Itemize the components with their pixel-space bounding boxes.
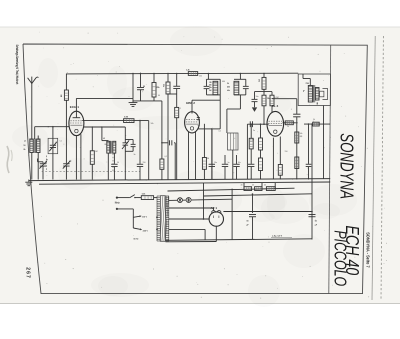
tuning capacitor C7 <box>122 127 129 180</box>
resistor R6 <box>90 151 94 165</box>
svg-text:50: 50 <box>315 221 317 223</box>
dial lamp LP1 <box>178 198 183 203</box>
wire R4 to bus <box>161 169 163 179</box>
wire osc grid link <box>101 126 108 140</box>
wire osc cap link <box>161 142 175 144</box>
node grid1 <box>48 126 54 128</box>
dashed tuning gang link <box>42 171 140 173</box>
svg-text:0,1: 0,1 <box>219 131 222 133</box>
wire V2 grid link <box>192 99 220 101</box>
capacitor C7b parallel <box>125 140 135 152</box>
capacitor C13 <box>209 128 215 179</box>
svg-text:50: 50 <box>247 221 249 223</box>
page edge dotted line <box>381 36 383 300</box>
speaker box <box>298 74 330 106</box>
svg-text:0,5M: 0,5M <box>250 140 254 142</box>
capacitor C12 <box>243 79 249 95</box>
wire B+ line <box>223 211 312 213</box>
ground arrow <box>252 107 257 112</box>
tuning capacitor C2 <box>49 127 57 180</box>
wire IFT1 drop <box>208 73 210 80</box>
svg-text:15k: 15k <box>267 98 270 100</box>
wire tone drop <box>308 123 310 164</box>
wire plate V3 <box>283 122 296 124</box>
IFT2 coil L6 <box>234 81 239 94</box>
tube V1 ECH40 <box>69 111 84 135</box>
svg-text:30k: 30k <box>162 84 164 87</box>
svg-text:50 Hz: 50 Hz <box>134 238 139 240</box>
label tube V3 <box>272 104 279 108</box>
svg-text:SONDYNA - Seite 7: SONDYNA - Seite 7 <box>366 232 371 268</box>
capacitor C17 coupling <box>250 121 265 127</box>
svg-text:50: 50 <box>117 162 119 164</box>
capacitor C10 <box>167 73 180 95</box>
wire screen drop <box>167 73 169 82</box>
svg-text:kHz: kHz <box>209 87 212 89</box>
wire L4 bottom <box>113 153 115 164</box>
svg-text:10n: 10n <box>214 162 217 164</box>
resistor R10 <box>262 95 270 106</box>
wire osc grid top <box>76 97 133 99</box>
resistor R4 <box>160 159 164 169</box>
resistor R8 <box>175 94 179 180</box>
left margin imprint text <box>15 45 19 85</box>
separator line <box>329 45 331 294</box>
resistor R13 cathode <box>278 165 282 180</box>
resistor R20 <box>266 187 275 191</box>
scan speckle <box>27 32 387 299</box>
wire drop 232 <box>231 189 233 240</box>
svg-text:10n: 10n <box>256 96 259 98</box>
label tube V4 <box>211 206 218 210</box>
wire L2 bottom to bus <box>37 153 39 180</box>
wire rectifier cathode <box>215 226 217 241</box>
IFT2 top wire <box>234 78 246 80</box>
svg-text:L.Sp. 5,9 V: L.Sp. 5,9 V <box>272 236 283 238</box>
tube V2 pins <box>189 131 196 179</box>
border frame <box>23 44 367 294</box>
svg-text:40: 40 <box>241 185 243 187</box>
resistor R22b <box>259 150 263 180</box>
heater row risers <box>244 183 275 189</box>
capacitor C16 <box>252 92 258 108</box>
wire osc coil lead <box>107 140 109 143</box>
resistor R7 <box>162 82 170 94</box>
svg-text:Schaltungs-Sammlung H. Thali,: Schaltungs-Sammlung H. Thali, Hitzkirch <box>15 45 19 85</box>
wire B+ rail <box>66 72 298 75</box>
dashed gang vertical left <box>46 156 48 172</box>
wire drop from rail <box>132 73 134 99</box>
svg-text:8k: 8k <box>24 149 26 151</box>
svg-text:40: 40 <box>264 185 266 187</box>
wire grid cap drop <box>65 74 67 91</box>
svg-text:C2: C2 <box>128 140 130 142</box>
coil core L3 <box>103 138 112 153</box>
svg-text:220 V: 220 V <box>143 230 149 232</box>
ground chassis at bus left end <box>25 180 32 186</box>
svg-text:5k: 5k <box>313 119 315 121</box>
resistor R17 <box>313 122 320 126</box>
label T2 <box>302 83 309 92</box>
power transformer T1 <box>157 196 169 242</box>
wire T2 primary leads <box>303 74 310 86</box>
resistor R2 grid <box>60 90 69 100</box>
wire heater return riser <box>203 183 205 220</box>
svg-text:0,1: 0,1 <box>165 156 168 158</box>
svg-text:0,3: 0,3 <box>300 136 302 138</box>
svg-text:5n: 5n <box>228 162 230 164</box>
svg-text:0,1: 0,1 <box>198 125 201 127</box>
coil core L1 <box>34 139 35 153</box>
wire V2 anode bend <box>198 128 212 130</box>
edition text SONDYNA Seite 7 <box>366 232 371 268</box>
svg-text:7000: 7000 <box>306 83 310 85</box>
wire selector <box>132 209 134 228</box>
wire transformer bottom <box>166 241 217 243</box>
svg-text:60: 60 <box>158 95 160 97</box>
dashed gang vertical <box>112 154 114 172</box>
switch S1 <box>130 195 136 199</box>
resistor R22a <box>259 123 263 150</box>
grid cap V2 <box>191 100 193 113</box>
grid top cap V1 <box>73 98 81 117</box>
wire grid drop left <box>246 124 248 179</box>
svg-text:5n: 5n <box>253 130 255 132</box>
resistor R19 <box>255 187 262 191</box>
wire T2 sec lead <box>316 102 318 104</box>
capacitor C14 <box>222 155 228 180</box>
svg-text:50k: 50k <box>257 79 259 82</box>
svg-text:460: 460 <box>222 81 225 83</box>
tube V3 EL41 <box>267 111 284 136</box>
margin smudge <box>7 146 12 173</box>
svg-text:ECH 1: ECH 1 <box>70 105 79 109</box>
svg-text:25k: 25k <box>199 76 202 78</box>
title ECH 40 <box>342 225 362 275</box>
page fold line <box>372 36 375 300</box>
svg-text:EBF 2: EBF 2 <box>186 101 195 105</box>
wire grid line right <box>84 126 126 128</box>
label mains freq <box>134 238 139 240</box>
wire R6 to bus <box>91 164 93 179</box>
svg-text:L3: L3 <box>103 138 105 140</box>
svg-text:kHz: kHz <box>227 90 230 92</box>
svg-text:4p: 4p <box>70 161 72 163</box>
svg-text:Ra: Ra <box>302 90 304 92</box>
wire avc branch <box>255 91 273 93</box>
dial lamp LP2 <box>186 198 191 203</box>
svg-text:EL 3: EL 3 <box>272 104 279 108</box>
resistor R14 <box>285 121 293 125</box>
label tube V1 <box>70 105 79 109</box>
output transformer T2 <box>308 85 319 102</box>
svg-text:40: 40 <box>252 185 254 187</box>
voltage tap 110V <box>133 215 147 218</box>
wire divider drop <box>263 73 265 78</box>
svg-text:PICCOLO: PICCOLO <box>330 230 350 286</box>
wire T1 filament <box>169 218 209 220</box>
svg-text:3n: 3n <box>134 154 136 156</box>
wire V1 plate drop <box>148 121 150 180</box>
IFT1 coil L5 <box>209 81 218 94</box>
svg-text:150: 150 <box>285 151 288 153</box>
antenna coil L2 <box>37 139 40 153</box>
wire IFT1 to V3 grid loop <box>212 79 220 179</box>
resistor R15 <box>295 132 302 143</box>
wire lamp line <box>169 199 232 200</box>
svg-text:0,1: 0,1 <box>179 108 182 110</box>
capacitor C11 <box>204 79 210 95</box>
mains terminal 2 <box>116 208 134 210</box>
svg-text:50: 50 <box>24 145 26 147</box>
wire T1 HT return <box>169 229 205 239</box>
antenna <box>28 77 39 139</box>
capacitor C4 <box>137 73 145 101</box>
detector block <box>228 133 239 150</box>
svg-text:5,9k: 5,9k <box>142 194 146 196</box>
tube V1 pin wires <box>76 134 81 179</box>
wire cluster bottom link <box>133 100 162 102</box>
resistor R1 on B+ rail <box>186 70 198 76</box>
wire heater line <box>168 188 295 191</box>
capacitor C18 tone <box>293 114 300 117</box>
loudspeaker <box>320 89 328 100</box>
svg-text:50: 50 <box>143 86 145 88</box>
capacitor C6 <box>111 164 117 179</box>
capacitor C9 <box>170 140 176 179</box>
svg-text:110 V: 110 V <box>142 217 148 219</box>
svg-text:150: 150 <box>143 162 146 164</box>
resistor R21 mains <box>141 194 153 200</box>
svg-text:50k: 50k <box>300 133 303 135</box>
wire ground bus B <box>39 182 330 184</box>
wire box to tone <box>323 106 325 179</box>
capacitor C8 <box>137 164 143 179</box>
label Netz <box>115 201 121 204</box>
trimmer capacitor C1 <box>38 159 48 180</box>
svg-text:460: 460 <box>227 86 230 89</box>
resistor R18 <box>244 187 252 191</box>
wire IFT2 secondary down <box>227 95 241 133</box>
capacitor C20 filter <box>309 211 318 227</box>
capacitor C19 filter <box>247 193 257 239</box>
wire R7 down <box>167 94 169 180</box>
wire L1 bottom to bus <box>31 153 33 180</box>
scan mottle <box>12 26 357 307</box>
IFT1 top wire <box>207 78 221 80</box>
antenna coil L1 <box>24 139 34 153</box>
IFT1 bottom wire <box>207 94 221 96</box>
capacitor C22 <box>306 164 312 179</box>
svg-text:128: 128 <box>209 82 212 84</box>
svg-text:4p: 4p <box>46 159 48 161</box>
wire to R21 <box>135 197 141 199</box>
wire line 194 <box>204 194 313 196</box>
trimmer capacitor C3 <box>63 159 71 180</box>
wire R2 to bus <box>65 100 67 158</box>
wire R21 to T1 <box>154 197 157 199</box>
rectifier V4 AZ41 <box>209 211 223 227</box>
IFT2 bottom wire <box>234 94 246 96</box>
resistor R12 <box>249 138 253 164</box>
resistor R16 <box>295 157 299 169</box>
T1 primary taps <box>156 216 158 230</box>
tuning capacitor C2 box <box>48 138 58 153</box>
svg-text:0,1M: 0,1M <box>124 117 128 119</box>
wire grid line tube1 <box>35 126 69 128</box>
svg-text:C1: C1 <box>60 141 62 143</box>
wire padder drop <box>139 120 141 164</box>
wire V3 screen link <box>272 98 297 100</box>
wire detector to bus <box>232 150 234 180</box>
capacitor C15 <box>233 155 239 180</box>
wire L3 bottom to bus <box>107 153 109 179</box>
oscillator coil L3 <box>107 141 110 153</box>
svg-text:50k: 50k <box>151 123 154 125</box>
wire avc drop1 <box>202 124 206 180</box>
wire bottom rail <box>166 239 313 241</box>
wire T1 to rectifier anode <box>169 208 214 210</box>
svg-text:0,2M: 0,2M <box>275 97 279 99</box>
wire output drop <box>296 99 298 180</box>
wire plate line V1 <box>82 120 149 122</box>
svg-text:2k: 2k <box>287 126 289 128</box>
svg-text:5k: 5k <box>227 83 229 85</box>
title PICCOLO <box>330 230 350 286</box>
label tube V2 <box>186 101 195 105</box>
voltage tap 220V <box>133 228 148 232</box>
label speaker feed <box>271 236 292 238</box>
svg-text:10n: 10n <box>238 162 241 164</box>
capacitor C21 <box>248 164 254 179</box>
diode plates V2 <box>197 118 200 120</box>
svg-text:5k2: 5k2 <box>209 90 212 92</box>
svg-text:SONDYNA: SONDYNA <box>337 133 358 199</box>
wire volume drop <box>250 123 252 138</box>
wire L2 secondary top <box>35 127 39 139</box>
svg-text:8k: 8k <box>105 144 107 146</box>
wire ground bus A <box>29 179 330 181</box>
resistor R11 screen <box>270 92 274 113</box>
svg-text:25k: 25k <box>157 87 160 89</box>
wire R9-R10 <box>263 89 265 95</box>
tube V3 pins <box>273 137 280 180</box>
wire right drop to PSU <box>311 123 313 239</box>
svg-text:L1: L1 <box>24 141 26 143</box>
svg-text:Netz: Netz <box>115 201 121 204</box>
wire R10 to grid line <box>263 106 265 124</box>
ground G1 <box>129 98 138 106</box>
tube V2 EBF <box>185 112 200 133</box>
component value labels <box>46 76 315 187</box>
svg-text:267: 267 <box>24 267 30 279</box>
title SONDYNA <box>337 133 358 199</box>
oscillator coil L4 <box>113 141 116 153</box>
resistor R9 <box>257 77 266 89</box>
wire IFT2 drop <box>240 73 242 80</box>
wire tone line <box>304 123 330 125</box>
svg-text:AZ 1: AZ 1 <box>211 206 218 210</box>
IFT2 labels <box>227 83 230 92</box>
mains terminal 1 <box>116 197 130 199</box>
wire grid resistor drop <box>92 126 94 151</box>
page number 267 <box>24 267 30 279</box>
wire grid line V3 <box>247 123 268 125</box>
resistor R3 <box>152 73 160 101</box>
wire osc feedback <box>161 101 163 159</box>
resistor R5 coupling <box>124 117 134 123</box>
